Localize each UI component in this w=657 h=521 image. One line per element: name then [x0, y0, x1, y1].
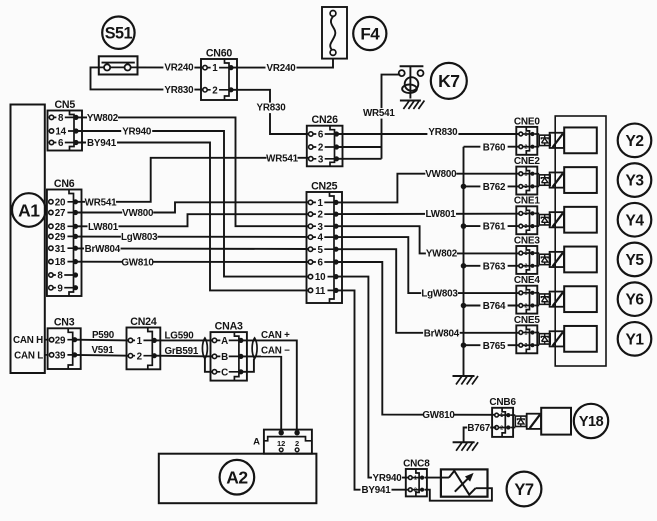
- connector CNA3: [211, 321, 247, 381]
- svg-text:F4: F4: [360, 25, 380, 44]
- valve Y1 label: [618, 322, 652, 356]
- wire CN24 pin 2 to CNA3 pin B, net GrB591: [156, 346, 213, 357]
- valve Y5 label: [618, 243, 652, 277]
- svg-text:1: 1: [212, 63, 218, 74]
- connector CN3: [48, 317, 81, 369]
- switch S51 label: [102, 17, 134, 49]
- svg-text:2: 2: [212, 85, 218, 96]
- svg-text:CAN +: CAN +: [261, 330, 290, 341]
- solenoid coil symbol Y5: [550, 252, 564, 267]
- connector CNE5: [514, 315, 541, 354]
- wire CNC8 pin 1 to valve Y7: [425, 477, 449, 479]
- svg-text:1: 1: [500, 413, 503, 419]
- svg-text:CAN L: CAN L: [14, 350, 43, 361]
- connector CN6: [47, 178, 82, 296]
- diode suppressor for CNE2: [535, 174, 551, 187]
- svg-text:B760: B760: [483, 142, 506, 153]
- connector CNE0: [514, 116, 541, 155]
- wire CN6 pin 28 to CN25 pin 2, net LW801: [75, 214, 308, 233]
- diode suppressor for CNB6: [510, 415, 526, 427]
- wire CN5 pin 14 to CN25 pin 10, net YR940: [77, 127, 309, 277]
- svg-text:Y5: Y5: [626, 252, 645, 269]
- svg-text:CNC8: CNC8: [403, 458, 430, 469]
- svg-text:29: 29: [55, 335, 66, 346]
- fuse F4 body: [322, 7, 347, 59]
- svg-text:12: 12: [277, 439, 285, 448]
- valve body Y3: [564, 167, 597, 193]
- twisted pair marker left of CNA3: [202, 338, 207, 359]
- svg-text:YW802: YW802: [426, 249, 458, 260]
- wire ground bus to CNE3 pin 2, net B763: [461, 261, 519, 272]
- svg-text:1: 1: [524, 172, 527, 178]
- svg-text:A: A: [253, 436, 260, 447]
- ground symbol for B767: [453, 442, 479, 451]
- svg-text:WR541: WR541: [266, 153, 298, 164]
- diode suppressor for CNE1: [535, 213, 551, 226]
- wire CN24 pin 1 to CNA3 pin A, net LG590: [156, 331, 213, 342]
- svg-text:CN25: CN25: [311, 180, 338, 192]
- wire CN25 pin 4 to CNE4 pin 1, net LgW803: [338, 237, 519, 299]
- svg-text:WR541: WR541: [363, 108, 395, 119]
- svg-text:S51: S51: [105, 25, 133, 43]
- wire S51 left terminal to CN60 pin 2, net YR830: [91, 67, 204, 96]
- wire CN3 pin 39 to CN24 pin 2, net V591: [76, 345, 129, 356]
- svg-text:A: A: [221, 336, 228, 347]
- ground bus for solenoid valves: [463, 147, 465, 375]
- ground symbol for valve bus: [453, 376, 479, 385]
- svg-text:11: 11: [315, 286, 326, 297]
- valve body Y6: [564, 286, 597, 312]
- node CAN L: [14, 350, 48, 361]
- svg-text:K7: K7: [438, 71, 459, 91]
- svg-text:31: 31: [55, 244, 66, 255]
- solenoid coil symbol Y6: [550, 292, 564, 307]
- connector A on A2: [253, 430, 312, 454]
- svg-text:VR240: VR240: [164, 63, 194, 74]
- svg-text:5: 5: [317, 245, 323, 256]
- svg-text:Y4: Y4: [626, 212, 645, 229]
- svg-text:29: 29: [55, 232, 66, 243]
- svg-text:CNE0: CNE0: [514, 116, 541, 127]
- node CAN H: [13, 335, 48, 346]
- svg-text:YR830: YR830: [428, 127, 458, 138]
- svg-text:LgW803: LgW803: [421, 289, 458, 300]
- svg-text:VW800: VW800: [425, 169, 457, 180]
- svg-text:2: 2: [500, 425, 503, 431]
- valve Y18 label: [574, 404, 608, 438]
- wire CNB6 pin 2 to ground, net B767: [464, 423, 497, 442]
- svg-text:YR830: YR830: [257, 103, 287, 114]
- wire CN6 pin 20 to CN26 pin 3, net WR541: [75, 153, 308, 208]
- svg-text:CNE2: CNE2: [514, 156, 541, 167]
- svg-text:B762: B762: [483, 182, 506, 193]
- solenoid coil symbol Y4: [550, 212, 564, 227]
- svg-text:2: 2: [524, 264, 527, 270]
- svg-text:CAN −: CAN −: [261, 345, 290, 356]
- relay K7 label: [431, 63, 467, 99]
- wire CN25 pin 6 to CNB6 pin 1, net GW810: [338, 262, 496, 421]
- svg-text:Y3: Y3: [626, 173, 645, 190]
- svg-text:2: 2: [524, 343, 527, 349]
- svg-text:Y1: Y1: [626, 331, 645, 348]
- svg-text:Y18: Y18: [579, 414, 604, 430]
- wire CN5 pin 8 to CN25 pin 3, net YW802: [77, 113, 309, 226]
- svg-text:A1: A1: [18, 200, 40, 220]
- switch S51 body: [99, 56, 138, 74]
- svg-text:18: 18: [55, 257, 66, 268]
- svg-text:39: 39: [55, 351, 66, 362]
- svg-text:2: 2: [414, 488, 417, 494]
- controller A1 label: [12, 193, 46, 227]
- svg-text:B764: B764: [483, 301, 506, 312]
- controller A2 label: [220, 460, 255, 495]
- wire CN6 pin 29 to CN25 pin 4, net LgW803: [75, 232, 308, 243]
- svg-text:1: 1: [524, 251, 527, 257]
- svg-text:LG590: LG590: [165, 331, 195, 342]
- svg-text:Y7: Y7: [514, 481, 534, 499]
- wire CNC8 pin 2 return loop to valve Y7: [425, 488, 492, 501]
- svg-text:CN60: CN60: [206, 47, 233, 59]
- ground for K7: [400, 101, 425, 110]
- svg-text:14: 14: [55, 127, 66, 138]
- solenoid coil symbol Y3: [550, 172, 564, 187]
- wire CN3 pin 29 to CN24 pin 1, net P590: [76, 330, 129, 341]
- svg-text:GW810: GW810: [422, 410, 455, 421]
- svg-text:1: 1: [414, 475, 417, 481]
- svg-text:8: 8: [57, 271, 63, 282]
- connector CN5: [48, 99, 83, 151]
- wire CN25 pin 1 to CNE2 pin 1, net VW800: [338, 169, 519, 203]
- valve body Y1: [564, 326, 597, 352]
- svg-text:Y6: Y6: [626, 292, 645, 309]
- wire CN60 pin 2 to CN26 pin 6, net YR830: [231, 90, 309, 134]
- svg-text:LW801: LW801: [88, 222, 119, 233]
- diode suppressor for CNE0: [535, 134, 551, 147]
- svg-text:B765: B765: [483, 341, 506, 352]
- svg-text:V591: V591: [91, 345, 114, 356]
- svg-text:CN3: CN3: [54, 317, 75, 329]
- solenoid coil symbol Y2: [550, 133, 564, 148]
- svg-text:GW810: GW810: [121, 257, 154, 268]
- valve Y2 label: [618, 124, 652, 158]
- connector CNE2: [514, 156, 541, 195]
- svg-text:1: 1: [317, 198, 323, 209]
- wire CN25 pin 3 to CNE3 pin 1, net YW802: [338, 226, 519, 259]
- svg-text:9: 9: [57, 283, 63, 294]
- wire CN25 pin 11 to CNC8 pin 2, net BY941: [338, 290, 409, 496]
- diode suppressor for CNE3: [535, 253, 551, 266]
- svg-text:2: 2: [524, 303, 527, 309]
- svg-text:CAN H: CAN H: [13, 335, 43, 346]
- wire S51 right terminal to CN60 pin 1, net VR240: [138, 63, 204, 74]
- svg-text:1: 1: [524, 132, 527, 138]
- svg-text:BY941: BY941: [362, 485, 392, 496]
- connector CNE3: [514, 235, 541, 274]
- wire K7 to CN26 pins 2 and 3, net WR541: [338, 75, 400, 159]
- wire CN60 pin 1 to fuse F4, net VR240: [231, 59, 333, 75]
- svg-text:BY941: BY941: [87, 138, 117, 149]
- wire CN26 pin 6 to CNE0 pin 1, net YR830: [338, 127, 519, 138]
- svg-text:VW800: VW800: [122, 208, 154, 219]
- svg-text:2: 2: [524, 184, 527, 190]
- svg-text:GrB591: GrB591: [165, 346, 199, 357]
- svg-text:2: 2: [295, 439, 299, 448]
- wire CN25 pin 2 to CNE1 pin 1, net LW801: [338, 209, 519, 220]
- svg-text:VR240: VR240: [267, 63, 297, 74]
- svg-text:2: 2: [318, 143, 324, 154]
- controller A1 box: [11, 105, 45, 374]
- wire ground bus to CNE5 pin 2, net B765: [461, 341, 519, 352]
- diode suppressor for CNE4: [535, 293, 551, 306]
- valve Y3 label: [618, 163, 652, 197]
- svg-text:3: 3: [318, 154, 324, 165]
- svg-text:A2: A2: [226, 468, 248, 488]
- svg-text:20: 20: [55, 197, 66, 208]
- svg-text:2: 2: [524, 145, 527, 151]
- svg-text:3: 3: [317, 222, 323, 233]
- svg-text:Y2: Y2: [626, 133, 644, 150]
- svg-text:2: 2: [524, 224, 527, 230]
- wire CN5 pin 6 to CN25 pin 11, net BY941: [77, 138, 309, 290]
- wire CN6 pin 31 to CN25 pin 5, net BrW804: [75, 244, 308, 255]
- valve body Y4: [564, 207, 597, 233]
- svg-text:6: 6: [317, 258, 323, 269]
- svg-text:YR940: YR940: [373, 473, 403, 484]
- solenoid coil symbol Y1: [550, 331, 564, 346]
- valve Y7 label: [507, 472, 542, 507]
- connector CN60: [201, 47, 237, 100]
- wire ground bus to CNE2 pin 2, net B762: [461, 182, 519, 193]
- wire CNA3 pin C to left shield: [205, 359, 213, 372]
- relay K7 symbol: [399, 66, 424, 98]
- svg-text:1: 1: [524, 211, 527, 217]
- wire CNA3 pin B to A2 connector, net CAN-: [241, 345, 290, 432]
- wire CN25 pin 10 to CNC8 pin 1, net YR940: [338, 277, 409, 484]
- svg-text:6: 6: [58, 138, 64, 149]
- svg-text:2: 2: [137, 351, 143, 362]
- svg-text:CNE1: CNE1: [514, 196, 541, 207]
- valve body Y2: [564, 127, 597, 153]
- svg-text:CNE3: CNE3: [514, 235, 541, 246]
- svg-text:CN5: CN5: [54, 99, 75, 111]
- controller A2 box: [159, 454, 317, 504]
- svg-text:10: 10: [315, 272, 326, 283]
- wire ground bus to CNE1 pin 2, net B761: [461, 222, 519, 233]
- svg-text:YR940: YR940: [122, 127, 152, 138]
- svg-text:C: C: [221, 367, 228, 378]
- connector CNC8: [403, 458, 430, 496]
- svg-text:B: B: [221, 352, 228, 363]
- wire CN25 pin 5 to CNE5 pin 1, net BrW804: [338, 249, 519, 339]
- wire CNA3 pin C to right shield: [241, 359, 254, 372]
- valve Y6 label: [618, 282, 652, 316]
- valve body Y5: [564, 247, 597, 273]
- connector CNB6: [489, 397, 516, 437]
- svg-text:B767: B767: [467, 423, 490, 434]
- svg-text:CN24: CN24: [130, 316, 157, 328]
- wire ground bus to CNE4 pin 2, net B764: [461, 301, 519, 312]
- svg-text:BrW804: BrW804: [85, 244, 121, 255]
- svg-text:1: 1: [137, 336, 143, 347]
- svg-text:8: 8: [58, 113, 64, 124]
- solenoid coil symbol Y18: [527, 414, 541, 429]
- svg-text:P590: P590: [92, 330, 115, 341]
- twisted pair marker right of CNA3: [252, 338, 257, 359]
- svg-text:1: 1: [524, 291, 527, 297]
- connector CN26: [307, 114, 343, 166]
- connector CNE4: [514, 275, 541, 314]
- svg-text:CNE4: CNE4: [514, 275, 541, 286]
- valve block frame: [555, 116, 606, 366]
- svg-text:LgW803: LgW803: [121, 232, 158, 243]
- svg-text:CN26: CN26: [312, 114, 339, 126]
- svg-text:6: 6: [318, 130, 324, 141]
- svg-text:27: 27: [55, 208, 66, 219]
- svg-text:BrW804: BrW804: [424, 328, 460, 339]
- svg-text:CNE5: CNE5: [514, 315, 541, 326]
- svg-text:4: 4: [317, 233, 323, 244]
- wire CN6 pin 27 to CN25 pin 1, net VW800: [75, 202, 308, 219]
- wire CNA3 pin A to A2 connector, net CAN+: [241, 330, 296, 433]
- wire CN6 pin 18 to CN25 pin 6, net GW810: [75, 257, 308, 268]
- valve body Y18: [541, 408, 571, 435]
- proportional valve Y7 body: [441, 469, 488, 496]
- diode suppressor for CNE5: [535, 333, 551, 346]
- connector CN25: [307, 180, 343, 303]
- svg-text:LW801: LW801: [425, 209, 456, 220]
- svg-text:2: 2: [317, 210, 323, 221]
- wire ground bus to CNE0 pin 2, net B760: [464, 142, 519, 153]
- svg-text:WR541: WR541: [85, 197, 117, 208]
- svg-text:CN6: CN6: [54, 178, 75, 190]
- svg-text:1: 1: [524, 330, 527, 336]
- svg-text:CNA3: CNA3: [215, 321, 243, 333]
- svg-text:B763: B763: [483, 261, 506, 272]
- valve Y4 label: [618, 203, 652, 237]
- connector CNE1: [514, 196, 541, 235]
- svg-text:YR830: YR830: [164, 85, 194, 96]
- svg-text:YW802: YW802: [87, 113, 119, 124]
- svg-text:CNB6: CNB6: [489, 397, 516, 408]
- svg-text:B761: B761: [483, 222, 506, 233]
- connector CN24: [127, 316, 161, 369]
- fuse F4 label: [353, 17, 386, 50]
